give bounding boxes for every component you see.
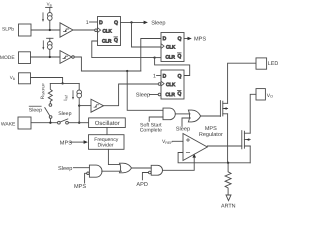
svg-text:Sleep: Sleep [176, 126, 190, 133]
wire frequency divider to OR1 [108, 149, 120, 164]
FF3 CLK bubble [158, 83, 161, 86]
wire AND3 out to OR2 [175, 113, 190, 115]
wire MODEb to FF2 D [141, 39, 161, 72]
transistor Q2 (VO pass MOSFET) [241, 131, 243, 149]
frequency divider block [89, 135, 125, 150]
arrow to MPS label [188, 37, 192, 41]
wire opamp out to Q2 gate [207, 145, 242, 147]
ARTN open arrow [226, 195, 231, 201]
output pad VO [256, 89, 265, 100]
svg-text:VB: VB [47, 2, 52, 8]
current direction arrow for I2 [42, 41, 44, 48]
node MODEb junction [126, 70, 128, 72]
wire Sleep label to AND1 [73, 167, 89, 169]
oscillator block [89, 118, 126, 128]
wire AND2 out to opamp enable [163, 157, 195, 170]
svg-text:Oscillator: Oscillator [95, 120, 120, 127]
current source I1 (pull-up on SLPb) [48, 13, 53, 18]
resistor RWKPUP [48, 83, 52, 103]
wire FF1 Q to Sleep arrow [121, 21, 144, 23]
AND2 inverted input bubble [149, 171, 152, 174]
wire MPS label to AND1 bubble [85, 173, 87, 183]
input pad VB [19, 73, 31, 84]
svg-text:Iref: Iref [63, 94, 69, 101]
output pad LED [256, 58, 267, 69]
arrow enable into opamp [192, 154, 196, 158]
power VB T-bar [46, 6, 52, 8]
wire SLPb line [31, 29, 60, 31]
svg-text:Sleep: Sleep [58, 165, 72, 172]
current source I3 Iref [77, 90, 82, 95]
input pad SLPb [19, 24, 32, 36]
wire U2 out to MODEb net [74, 57, 141, 71]
svg-text:Complete: Complete [140, 128, 162, 134]
power T-bar above I2 [47, 37, 53, 39]
FF1 CLK bubble [95, 29, 98, 32]
svg-text:Sleep: Sleep [58, 111, 71, 117]
wire Q2 source to sense node [249, 146, 251, 163]
wire Sleep junction to FF2 CLK [132, 22, 162, 47]
wire oscillator to frequency divider [106, 128, 108, 135]
wire U1 out to FF1 CLK [73, 29, 95, 31]
wire VB to current source I1 [49, 7, 51, 30]
node comparator input junction [78, 104, 80, 106]
svg-text:ARTN: ARTN [221, 204, 236, 210]
wire logic 1 to FF3 D [157, 75, 161, 77]
svg-text:Sleep: Sleep [151, 20, 165, 27]
wire MODEb down-rail to AND3 [127, 71, 163, 110]
svg-text:1: 1 [86, 20, 89, 26]
wire VB line [31, 78, 63, 84]
arrow to Sleep label [144, 21, 148, 25]
schmitt comparator U3 [91, 99, 104, 112]
wire reset net to FF2 CLR [155, 57, 161, 59]
svg-text:Sleep: Sleep [29, 107, 42, 113]
wire Q1 drain to LED pad [228, 63, 256, 103]
wire Sleep label to FF3 CLR [149, 94, 158, 96]
AND gate AND2 [151, 165, 162, 175]
wire soft start complete to AND3 [149, 117, 163, 121]
wire pull-up rail [50, 82, 79, 84]
opamp - symbol [186, 152, 189, 154]
wire MPS label to frequency divider [71, 141, 84, 143]
input pad MODE [19, 52, 31, 64]
OR gate OR2 [188, 110, 200, 122]
wire FF2 Q to MPS arrow [184, 38, 188, 40]
resistor R1 sense [225, 163, 231, 195]
svg-text:VB: VB [10, 75, 16, 81]
wire WAKE line [31, 122, 58, 124]
flip-flop FF2 [161, 33, 184, 62]
wire APD label to AND2 bubble [142, 173, 148, 180]
switch S2 (Sleep) in WAKE line [58, 121, 61, 124]
node SLPb junction [49, 29, 51, 31]
current direction arrow for I3 [72, 91, 74, 98]
transistor Q1 (LED driver MOSFET) [219, 101, 221, 117]
switch S1 (Sleep-bar) [49, 104, 52, 107]
node reset net junction [153, 56, 155, 58]
schmitt inverter U2 [60, 51, 72, 64]
svg-text:1: 1 [153, 74, 156, 80]
wire logic 1 to FF1 D [90, 21, 98, 23]
svg-text:Sleep: Sleep [136, 92, 150, 99]
node WAKE-Iref junction [78, 122, 80, 124]
OR gate OR1 [120, 163, 132, 173]
wire junction to comparator U3 [79, 105, 91, 107]
flip-flop FF1 [98, 17, 121, 46]
svg-text:MODE: MODE [0, 55, 15, 61]
arrow MPS into frequency divider [84, 140, 88, 144]
wire MODE line [31, 56, 61, 58]
wire reset net to FF3 Q [155, 58, 190, 76]
AND gate AND1 [89, 165, 102, 177]
wire opamp - feedback [178, 153, 250, 163]
wire switch S2 to WAKE node [68, 122, 79, 124]
svg-text:RWKPUP: RWKPUP [40, 83, 46, 100]
schmitt buffer U1 [60, 23, 73, 37]
node Sleep junction [130, 21, 132, 23]
wire OR2 out to Q1 gate [201, 115, 221, 117]
svg-text:LED: LED [268, 61, 279, 67]
svg-text:MPS: MPS [74, 184, 86, 190]
wire VREF to opamp + [172, 140, 183, 142]
svg-text:WAKE: WAKE [1, 122, 16, 128]
FF3 CLR bubble [158, 93, 161, 96]
svg-text:APD: APD [136, 182, 148, 188]
wire T-bar to current source I2 [49, 38, 51, 57]
wire Iref drop [78, 83, 80, 122]
node sense junction [227, 162, 229, 164]
svg-text:Divider: Divider [98, 143, 114, 149]
svg-text:SLPb: SLPb [2, 27, 14, 33]
svg-text:VREF: VREF [162, 139, 173, 145]
opamp U4 MPS regulator [183, 134, 207, 161]
svg-text:Regulator: Regulator [199, 132, 223, 138]
node VB rail junction [61, 82, 63, 84]
node switch S1 junction [49, 122, 51, 124]
wire Q1 source down to sense node [227, 114, 229, 163]
current source I2 (pull-up on MODE) [48, 42, 53, 47]
wire AND1 out to OR1 [102, 170, 122, 172]
current direction arrow for I1 [42, 13, 44, 20]
wire VO pad to Q2 drain [250, 94, 256, 133]
wire U3 out to FF3 CLK [104, 84, 159, 106]
input pad WAKE [18, 117, 31, 129]
node MODE junction [49, 56, 51, 58]
opamp + symbol [186, 138, 189, 141]
svg-text:MPS: MPS [60, 140, 72, 146]
flip-flop FF3 [161, 70, 184, 99]
wire FF1 CLR to reset net [92, 41, 155, 58]
wire OR1 out to AND2 [132, 167, 152, 169]
svg-text:MPS: MPS [194, 37, 206, 43]
wire WAKE node to oscillator [79, 122, 88, 124]
AND gate AND3 [163, 108, 175, 120]
AND1 inverted input bubble [87, 172, 90, 175]
svg-text:VO: VO [267, 93, 273, 99]
wire Sleep label to OR2 [182, 118, 190, 126]
